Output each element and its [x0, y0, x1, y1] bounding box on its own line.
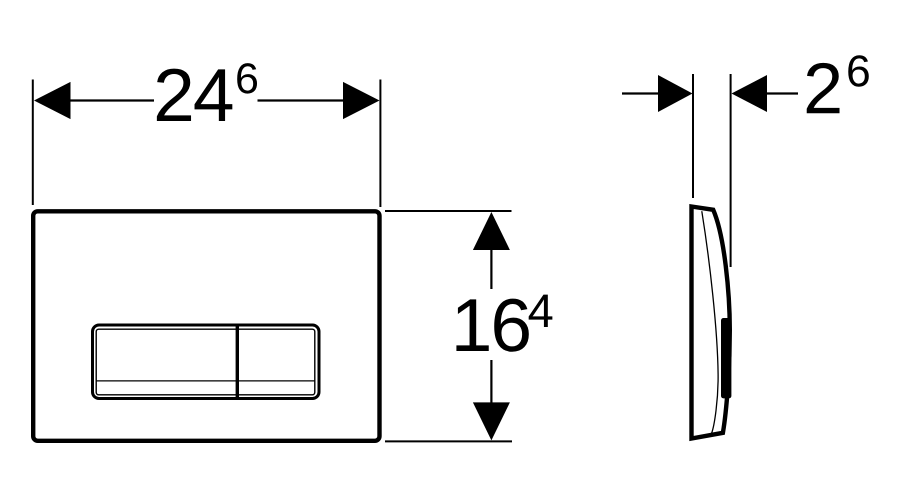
thickness dimension left arrow	[622, 75, 693, 112]
side view front face inner edge	[702, 211, 718, 433]
width dimension label 24	[157, 69, 232, 121]
width dimension right arrow	[258, 82, 380, 119]
width dimension left extension line	[32, 80, 34, 206]
button divider	[236, 326, 239, 398]
height dimension superscript 4	[529, 295, 553, 327]
height dimension label 16	[456, 299, 528, 352]
front view plate outline	[33, 211, 379, 440]
thickness dimension superscript 6	[848, 55, 869, 87]
thickness dimension right arrow	[732, 75, 799, 112]
height dimension bottom extension line	[385, 440, 512, 442]
button bottom edge line	[96, 380, 315, 382]
thickness dimension label 2	[807, 63, 840, 113]
side view button bar	[721, 318, 731, 398]
height dimension bottom arrow	[473, 360, 510, 440]
height dimension top arrow	[473, 212, 510, 289]
button panel inner edge	[96, 329, 315, 395]
thickness dimension right extension line	[730, 74, 732, 267]
button panel outer frame	[93, 325, 320, 399]
width dimension right extension line	[379, 80, 381, 208]
side view plate outline	[692, 207, 730, 439]
width dimension left arrow	[34, 82, 154, 119]
height dimension top extension line	[385, 210, 512, 212]
width dimension superscript 6	[237, 63, 257, 93]
thickness dimension left extension line	[692, 74, 694, 198]
